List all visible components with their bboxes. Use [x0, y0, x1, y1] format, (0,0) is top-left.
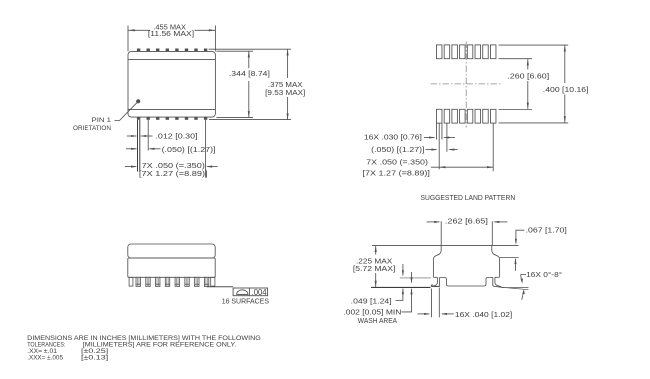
end view: wash area line [400, 277, 431, 279]
end view: left foot bottom [431, 285, 439, 287]
dimension .067 leader and arrows [516, 230, 525, 243]
surface profile symbol [237, 290, 248, 295]
side view: top cap [128, 244, 215, 258]
side view: leader line to flatness callout [207, 286, 234, 288]
dimension (.050) land arrows [426, 149, 437, 151]
dimension .344 extension lines [216, 50, 253, 52]
svg-text:16X .040 [1.02]: 16X .040 [1.02] [455, 310, 512, 319]
end view: left lead outer edge and foot [431, 277, 437, 286]
svg-text:[7X 1.27 (=8.89)]: [7X 1.27 (=8.89)] [363, 169, 430, 178]
dimension .262 arrows [427, 221, 440, 223]
dimension 16X .030 arrows [424, 137, 434, 139]
land pattern: vertical centerline [465, 42, 467, 128]
svg-text:PIN 1: PIN 1 [92, 117, 112, 124]
svg-text:(.050) [(1.27)]: (.050) [(1.27)] [162, 145, 216, 154]
end view: bottom step and pedestal [440, 278, 493, 287]
dimension .012 arrows [127, 135, 136, 137]
end view: body outline right [492, 245, 500, 277]
dimension (.050) arrows [126, 148, 136, 150]
end view: right foot bottom sloped [493, 286, 502, 287]
dimension .455 MAX dimension line with arrows [128, 29, 150, 31]
svg-text:ORIETATION: ORIETATION [73, 125, 111, 132]
svg-text:[7X 1.27 (=8.89)]: [7X 1.27 (=8.89)] [139, 169, 208, 178]
land pattern: bottom row pads (8) [436, 109, 442, 123]
land pattern: horizontal centerline [431, 83, 502, 85]
side view: front leads (8) [136, 277, 140, 286]
svg-text:7X .050 (=.350): 7X .050 (=.350) [366, 157, 428, 166]
end view: left lead inner edge [439, 277, 441, 286]
dimension .225 MAX dimension line [375, 246, 377, 255]
top view: bottom edge pin dashes (8 pins) [137, 117, 140, 119]
svg-text:.400 [10.16]: .400 [10.16] [543, 85, 589, 94]
svg-text:.049 [1.24]: .049 [1.24] [351, 297, 392, 306]
dimension .260 dimension line [527, 59, 529, 69]
dimension .375 MAX extension lines [209, 48, 292, 50]
dimension .455 MAX extension lines [127, 26, 129, 52]
land pattern: lower extension lines [435, 123, 437, 139]
svg-text:[9.53 MAX]: [9.53 MAX] [265, 88, 305, 97]
top view: top band line [128, 58, 215, 60]
svg-text:.012 [0.30]: .012 [0.30] [155, 132, 197, 141]
svg-text:[11.56 MAX]: [11.56 MAX] [148, 29, 194, 38]
land pattern: right extension lines [499, 44, 569, 46]
pin 8 extension line [205, 120, 207, 177]
svg-text:WASH AREA: WASH AREA [358, 316, 397, 325]
dimension 16X .040 extension lines [431, 289, 433, 318]
pin 1 leader line [115, 103, 137, 121]
svg-text:(.050) [(1.27)]: (.050) [(1.27)] [371, 145, 424, 154]
flatness feature control frame [233, 288, 268, 296]
dimension 16X 0-8 degrees angle arcs [521, 274, 527, 276]
svg-text:[±0.13]: [±0.13] [81, 354, 108, 361]
svg-text:.344 [8.74]: .344 [8.74] [229, 69, 270, 78]
pin 1 index dot [136, 99, 140, 103]
end view: right lead outer edge and foot [495, 277, 502, 287]
svg-text:16X 0°-8°: 16X 0°-8° [526, 270, 562, 279]
dimension .049 arrows [402, 264, 404, 275]
svg-text:SUGGESTED LAND PATTERN: SUGGESTED LAND PATTERN [421, 193, 516, 202]
side view: body [128, 258, 215, 277]
side view: back row lead left [129, 277, 133, 286]
svg-text:.067 [1.70]: .067 [1.70] [526, 226, 567, 235]
top view: package body outline [128, 51, 215, 117]
svg-text:.262 [6.65]: .262 [6.65] [445, 217, 488, 226]
dimension .262 extension lines [440, 221, 442, 245]
svg-text:[5.72 MAX]: [5.72 MAX] [353, 264, 396, 273]
dimension 16X .040 arrows [417, 313, 429, 315]
pin 2 extension line [147, 120, 149, 151]
end view: seating tangent line right [502, 287, 529, 289]
end view: bottom shelf left [433, 276, 437, 278]
land pattern: top row pads (8) [436, 45, 442, 59]
svg-text:.260 [6.60]: .260 [6.60] [507, 72, 549, 81]
dimension .375 MAX dimension line [287, 49, 289, 78]
side view: back row lead right [211, 277, 215, 286]
pin 1 lead extended (width .012) [137, 120, 139, 172]
end view: top line [372, 244, 519, 246]
dimension 7X .050 arrows [125, 166, 136, 168]
end view: seating plane line [371, 286, 431, 288]
top view: bottom band line [128, 108, 215, 110]
top view: top edge pin dashes (8 pins) [137, 49, 140, 52]
end view: right shelf [495, 276, 500, 278]
end view: body outline left [433, 245, 441, 277]
end view: right lead inner edge [492, 277, 494, 286]
dimension .002 arrows [411, 272, 413, 282]
dimension .344 dimension line [248, 51, 250, 68]
end view: step extension line right [500, 257, 519, 259]
svg-text:16X .030 [0.76]: 16X .030 [0.76] [364, 133, 422, 142]
dimension 7X .050 land dimension line [431, 166, 493, 168]
dimension .400 dimension line [564, 45, 566, 83]
svg-text:.XXX= ±.005: .XXX= ±.005 [27, 354, 63, 361]
end view: foot angle sloped extension line [502, 287, 529, 289]
svg-text:16 SURFACES: 16 SURFACES [222, 297, 269, 306]
